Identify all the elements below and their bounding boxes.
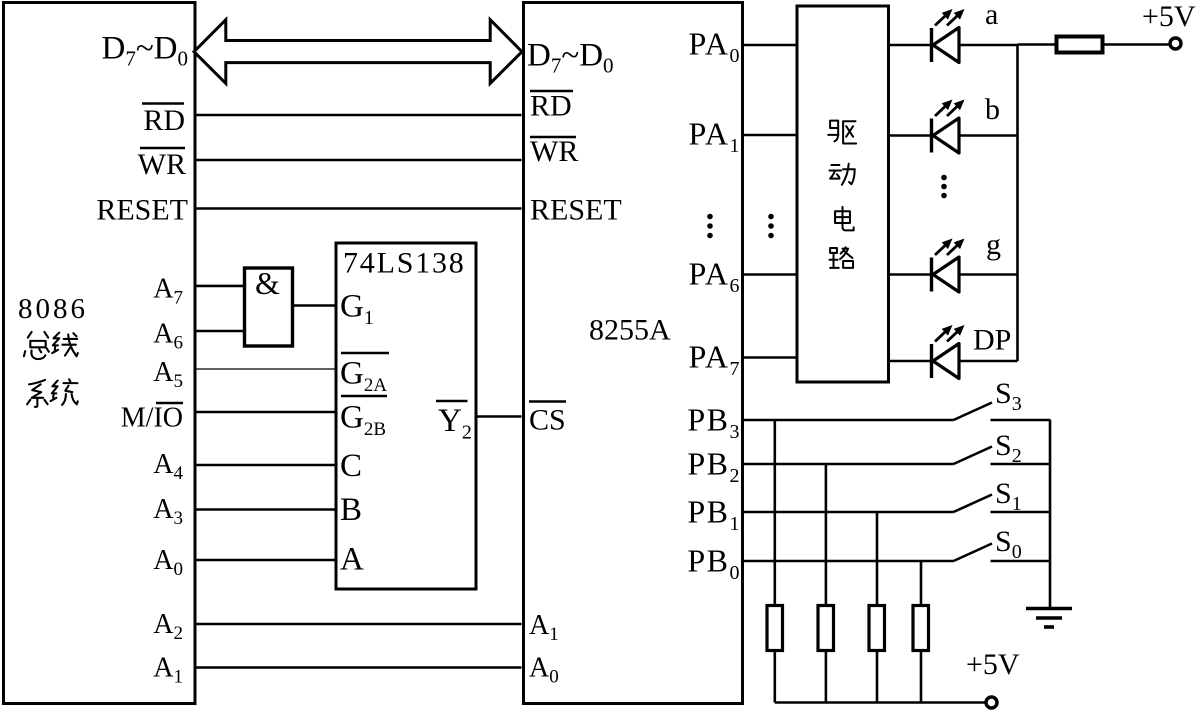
data bus double arrow D7~D0 (194, 20, 522, 84)
pull-up tap wire PB2 (825, 464, 828, 604)
wire PB3 to switch S3 (744, 419, 954, 422)
switch S2 (954, 447, 993, 465)
driver circuit box 驱动电路 (797, 6, 889, 382)
wire RESET (197, 207, 522, 210)
wire WR (197, 159, 522, 162)
svg-text:+5V: +5V (966, 648, 1020, 681)
pull-up tap wire PB1 (876, 512, 879, 604)
svg-text:+5V: +5V (1142, 0, 1196, 33)
pull-up resistor R3 (818, 606, 834, 651)
wire PA1 to driver (744, 134, 796, 137)
wire R2 to +5V rail (773, 652, 776, 703)
wire RD (197, 114, 522, 117)
pull-up resistor R5 (913, 606, 929, 651)
svg-text:b: b (985, 93, 1000, 126)
wire A7 to AND gate (197, 285, 244, 288)
svg-text:8086: 8086 (18, 293, 88, 325)
switch S3 (954, 403, 993, 421)
pull-up tap wire PB3 (773, 420, 776, 604)
svg-text:g: g (986, 228, 1001, 261)
switch S0 (954, 544, 993, 562)
svg-text:DP: DP (973, 324, 1011, 357)
LED g (890, 239, 1018, 293)
LED b (890, 100, 1018, 154)
label 系统 (system) (27, 379, 78, 407)
svg-text:WR: WR (138, 148, 186, 181)
ellipsis dots between 8255A and driver (768, 214, 774, 239)
svg-text:RD: RD (530, 90, 572, 123)
wire PA0 to driver (744, 44, 796, 47)
wire A2 to 8255A A1 (197, 623, 522, 626)
svg-text:A: A (340, 541, 364, 577)
wire bus to resistor R1 (1018, 43, 1057, 46)
LED DP (890, 325, 1018, 379)
ground symbol (1026, 609, 1072, 628)
svg-text:RESET: RESET (96, 194, 188, 227)
+5V terminal circle top (1170, 38, 1181, 49)
ellipsis dots LED column (941, 175, 947, 199)
+5V rail bottom (775, 701, 986, 704)
pull-up resistor R2 (767, 606, 783, 651)
wire A0 to A (197, 559, 337, 562)
wire Y2 to CS (476, 415, 522, 418)
wire R5 to +5V rail (920, 652, 923, 703)
svg-text:B: B (340, 492, 362, 528)
svg-text:74LS138: 74LS138 (343, 247, 466, 280)
wire R1 to +5V terminal (1103, 43, 1170, 46)
AND gate U2 (245, 268, 293, 346)
wire A1 to 8255A A0 (197, 666, 522, 669)
wire M/IO to G2B (197, 411, 337, 414)
wire PA6 to driver (744, 273, 796, 276)
svg-text:C: C (340, 448, 362, 484)
svg-text:RD: RD (143, 104, 185, 137)
wire R4 to +5V rail (876, 652, 879, 703)
wire PB1 to switch S1 (744, 511, 954, 514)
wire A3 to B (197, 508, 337, 511)
svg-text:8255A: 8255A (589, 314, 671, 347)
wire R3 to +5V rail (825, 652, 828, 703)
svg-text:CS: CS (529, 404, 566, 437)
svg-text:RESET: RESET (530, 194, 622, 227)
8086 bus system box U-left (4, 3, 196, 704)
ellipsis dots inside 8255A (707, 214, 713, 239)
resistor R1 (1057, 37, 1103, 53)
8255A box U4 (524, 3, 743, 704)
+5V terminal circle bottom (986, 697, 997, 708)
pull-up tap wire PB0 (920, 561, 923, 604)
wire A4 to C (197, 464, 337, 467)
74LS138 box U3 (336, 243, 476, 589)
pull-up resistor R4 (869, 606, 885, 651)
LED a (890, 9, 1018, 63)
switch common bus to ground (1049, 420, 1052, 608)
wire AND output to G1 (294, 304, 336, 307)
label 总线 (bus) (24, 332, 78, 359)
switch S1 (954, 495, 993, 513)
wire PB0 to switch S0 (744, 560, 954, 563)
svg-text:D7~D0: D7~D0 (527, 38, 614, 78)
svg-text:WR: WR (530, 135, 578, 168)
wire PB2 to switch S2 (744, 463, 954, 466)
svg-text:&: & (255, 265, 280, 301)
LED common bus wire (1016, 45, 1019, 361)
wire PA7 to driver (744, 356, 796, 359)
svg-text:D7~D0: D7~D0 (101, 31, 188, 71)
wire A5 thin to G2A (197, 368, 337, 370)
svg-text:M/IO: M/IO (121, 403, 183, 434)
wire A6 to AND gate (197, 330, 244, 333)
label 驱动电路 (driver circuit) (828, 121, 856, 268)
svg-text:a: a (985, 0, 998, 31)
